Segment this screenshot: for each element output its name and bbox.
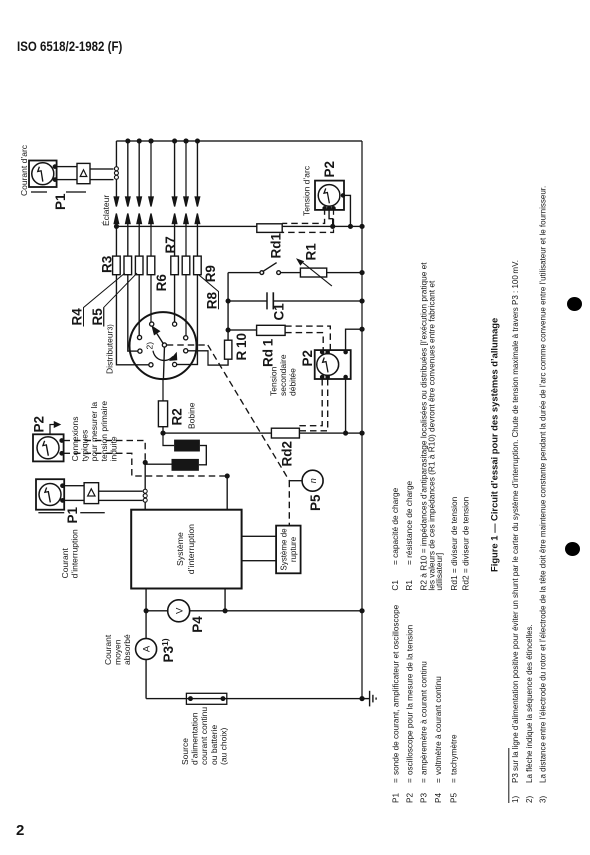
label tension secondaire	[269, 354, 298, 396]
svg-text:C1: C1	[390, 580, 400, 591]
svg-text:=: =	[450, 778, 459, 783]
voltmeter P4	[168, 600, 190, 622]
current clamp P1a on gap wire 1	[114, 167, 118, 180]
spark gap 6	[184, 139, 188, 226]
amplifier P1a	[77, 163, 90, 183]
svg-text:Figure 1 — Circuit d’essai pou: Figure 1 — Circuit d’essai pour des syst…	[489, 318, 500, 572]
oscilloscope P1b box	[36, 479, 64, 510]
svg-text:pour mesurer la: pour mesurer la	[89, 402, 99, 462]
current clamp P1b on primary wire	[143, 489, 147, 502]
rupture system box	[276, 526, 301, 574]
dashed P2s leads to Rd2	[299, 379, 327, 431]
svg-text:Système: Système	[175, 532, 185, 566]
svg-text:Rd1 = diviseur de tension: Rd1 = diviseur de tension	[449, 496, 459, 590]
wire P2s to ground rail	[346, 327, 364, 352]
svg-text:R3: R3	[100, 255, 115, 273]
interruption system box U1	[131, 510, 241, 589]
svg-text:R5: R5	[90, 308, 105, 326]
dashed P2p lead 1	[64, 441, 146, 461]
resistor R5	[135, 226, 143, 274]
rheostat R1	[298, 260, 364, 287]
svg-text:induite: induite	[108, 436, 118, 461]
resistor R9	[194, 226, 202, 274]
registration dot bottom	[565, 542, 580, 556]
svg-text:R6: R6	[154, 274, 169, 292]
svg-text:R8: R8	[205, 291, 220, 309]
legend P block	[392, 604, 459, 803]
svg-text:P2: P2	[406, 793, 415, 803]
coil R2 (Bobine)	[158, 401, 167, 435]
leader R8	[199, 275, 219, 310]
svg-text:Tension: Tension	[269, 366, 279, 396]
wire rupture link a	[242, 560, 277, 562]
resistor R10	[225, 273, 232, 360]
svg-text:(au choix): (au choix)	[218, 728, 228, 765]
svg-text:R1: R1	[304, 243, 319, 261]
svg-text:R2: R2	[170, 408, 185, 425]
oscilloscope P1a box (arc current)	[29, 161, 57, 188]
svg-text:= résistance de charge: = résistance de charge	[404, 480, 414, 565]
svg-text:V: V	[174, 607, 185, 614]
svg-text:utilisateur]: utilisateur]	[434, 553, 444, 591]
svg-text:2): 2)	[525, 796, 534, 803]
svg-text:tachymètre: tachymètre	[450, 734, 459, 775]
svg-text:Source: Source	[180, 738, 190, 765]
legend C block	[390, 262, 471, 591]
svg-text:=: =	[434, 778, 443, 783]
contact c2	[150, 322, 154, 326]
wire resistor5 to contact c3	[174, 275, 176, 324]
svg-text:Connexions: Connexions	[70, 417, 80, 462]
wire contact c6 to R10 rail	[188, 351, 228, 365]
wire distributor center to coil R2	[163, 347, 164, 401]
svg-text:voltmètre à courant continu: voltmètre à courant continu	[434, 676, 443, 775]
dashed drive from distributor to tachymeter	[167, 345, 289, 526]
probe arrow P2p	[50, 422, 60, 434]
svg-text:Rd 1: Rd 1	[261, 338, 276, 367]
winding bar 2	[172, 459, 199, 471]
svg-text:P2: P2	[322, 161, 337, 178]
capacitor C1 branch	[226, 292, 364, 309]
svg-text:R4: R4	[70, 308, 85, 326]
spark gap 3	[137, 139, 141, 226]
oscilloscope P2p box (primary voltage)	[33, 434, 64, 461]
wire resistor4 to contact c2	[150, 275, 152, 324]
svg-text:P2: P2	[32, 416, 47, 433]
svg-text:P4: P4	[190, 616, 205, 633]
wire left supply vertical	[146, 698, 362, 700]
contact c3	[173, 322, 177, 326]
svg-text:rupture: rupture	[289, 536, 298, 562]
label systeme de rupture	[280, 528, 299, 571]
svg-text:= capacité de charge: = capacité de charge	[390, 487, 400, 565]
rotor arrow	[152, 327, 163, 344]
ammeter P3	[136, 639, 157, 660]
underline R5	[103, 308, 104, 327]
underline R4	[83, 308, 84, 327]
svg-text:Courant d’arc: Courant d’arc	[19, 144, 29, 196]
svg-text:d’interruption: d’interruption	[70, 529, 80, 578]
svg-text:tension primaire: tension primaire	[99, 401, 109, 462]
source box (battery / DC supply)	[186, 693, 226, 704]
svg-text:A: A	[142, 645, 153, 652]
svg-text:P3: P3	[420, 793, 429, 803]
leader R5	[104, 273, 137, 326]
rotor center contact	[162, 343, 166, 347]
resistor R3	[113, 226, 121, 274]
svg-text:Rd2: Rd2	[280, 441, 295, 467]
svg-text:ou batterie: ou batterie	[209, 725, 219, 765]
svg-text:=: =	[392, 778, 401, 783]
svg-text:absorbé: absorbé	[122, 634, 132, 665]
contact c4	[184, 336, 188, 340]
wire coil node down to Rd2 and ground rail	[163, 431, 364, 435]
label connexions typiques	[70, 401, 118, 462]
svg-text:P3 sur la ligne d’alimentation: P3 sur la ligne d’alimentation positive …	[511, 260, 520, 783]
contact c5	[138, 349, 142, 353]
wire measure tap to box	[225, 474, 229, 510]
resistor R4	[124, 226, 132, 274]
oscilloscope P2a box (arc voltage)	[315, 181, 345, 210]
svg-text:Rd2 = diviseur de tension: Rd2 = diviseur de tension	[460, 496, 470, 590]
divider Rd1a (arc voltage, on eclateur rail)	[257, 224, 364, 233]
svg-text:sonde de courant, amplificateu: sonde de courant, amplificateur et oscil…	[392, 604, 401, 775]
svg-text:R7: R7	[163, 236, 178, 253]
contact c1	[137, 335, 141, 339]
wire resistor1 to contact c7	[116, 275, 150, 365]
contact c8	[173, 362, 177, 366]
wire rupture link b	[242, 535, 277, 537]
wire box lower feed	[223, 589, 227, 613]
wire eclateur rail	[115, 225, 363, 229]
voltmeter P4 branch	[144, 609, 364, 613]
wire Rd1s feed	[226, 328, 256, 332]
svg-text:1): 1)	[511, 796, 520, 803]
wire bottom ground rail	[361, 141, 363, 699]
spark gap 5	[172, 139, 176, 226]
svg-text:ampèremètre à courant continu: ampèremètre à courant continu	[420, 661, 429, 775]
bracket P1b	[38, 512, 104, 514]
wire coil node to winding 1	[163, 433, 174, 445]
svg-text:3): 3)	[539, 796, 548, 803]
label courant moyen absorbe	[103, 634, 132, 665]
svg-text:Courant: Courant	[60, 548, 70, 579]
wires P1b meter-amp-clamp	[64, 486, 142, 501]
label source d'alimentation	[180, 707, 228, 765]
divider Rd1s (secondary)	[257, 325, 286, 335]
sequence arrow 2)	[153, 351, 177, 361]
svg-text:P5: P5	[450, 793, 459, 803]
leader R4	[84, 273, 125, 326]
svg-text:=: =	[406, 778, 415, 783]
svg-text:P1: P1	[392, 793, 401, 803]
svg-text:La distance entre l’électrode: La distance entre l’électrode du rotor e…	[539, 186, 548, 783]
footnotes	[511, 186, 548, 803]
contact c7	[149, 363, 153, 367]
svg-text:moyen: moyen	[113, 639, 123, 665]
svg-text:P2: P2	[300, 350, 315, 367]
svg-text:Courant: Courant	[103, 634, 113, 665]
wire resistor2 to contact c5	[128, 275, 140, 351]
svg-text:La flèche indique la séquence: La flèche indique la séquence des étince…	[525, 624, 534, 783]
wire winding2 top to primary node	[145, 463, 171, 465]
svg-text:Bobine: Bobine	[187, 402, 197, 429]
winding bar 1	[174, 440, 200, 452]
ground	[360, 691, 376, 707]
spark gap 7	[195, 139, 199, 226]
wire supply to P3	[145, 589, 147, 699]
switch	[228, 263, 300, 275]
svg-text:Système de: Système de	[280, 528, 289, 571]
divider Rd2	[271, 428, 299, 438]
dashed P2a leads to Rd1a	[282, 208, 333, 232]
svg-text:oscilloscope pour la mesure de: oscilloscope pour la mesure de la tensio…	[406, 624, 415, 775]
svg-text:les valeurs de ces impédances: les valeurs de ces impédances (R1 à R10)…	[427, 280, 437, 591]
registration dot top	[567, 297, 582, 311]
svg-text:typiques: typiques	[80, 430, 90, 462]
svg-text:P31): P31)	[160, 638, 176, 662]
svg-text:P1: P1	[53, 193, 68, 210]
contact c6	[184, 349, 188, 353]
dashed P2s leads to Rd1s	[285, 326, 330, 350]
svg-text:Distributeur3): Distributeur3)	[105, 324, 115, 374]
svg-text:R 10: R 10	[234, 333, 249, 360]
wire primary node to interruption box	[143, 461, 147, 510]
wire P2a to rails	[329, 195, 352, 228]
underline R8	[218, 292, 219, 310]
wire resistor3 to contact c1	[138, 275, 140, 338]
svg-text:d’interruption: d’interruption	[186, 524, 196, 574]
svg-text:P1: P1	[65, 506, 80, 523]
svg-text:P5: P5	[308, 494, 323, 511]
svg-text:=: =	[420, 778, 429, 783]
svg-text:Éclateur: Éclateur	[101, 195, 111, 226]
footnote rule	[508, 748, 509, 803]
svg-text:C1: C1	[272, 303, 287, 321]
wire winding bottoms U link	[199, 446, 206, 465]
dashed P2p lead 2	[64, 453, 228, 476]
svg-text:courant continu: courant continu	[199, 707, 209, 765]
spark gap 1	[114, 141, 118, 226]
oscilloscope P2s box (secondary voltage)	[315, 350, 351, 379]
resistor R7	[171, 226, 179, 274]
svg-text:Rd1: Rd1	[269, 233, 284, 259]
svg-text:d’alimentation: d’alimentation	[190, 712, 200, 765]
amplifier P1b	[84, 483, 99, 504]
svg-text:débitée: débitée	[288, 368, 298, 396]
wire to P5	[289, 480, 302, 482]
svg-text:2): 2)	[145, 342, 155, 350]
spark gap 4	[149, 139, 153, 226]
wire resistor6 to contact c4	[185, 275, 187, 338]
label systeme d'interruption	[175, 524, 196, 574]
wire P2s to Rd2 node	[345, 377, 347, 433]
wire top bus vertical rail	[116, 140, 362, 142]
wire resistor7 to contact c8	[175, 275, 198, 365]
label courant d'interruption	[60, 529, 80, 578]
svg-text:n: n	[308, 478, 318, 483]
resistor R8r	[182, 226, 190, 274]
bracket P1a	[31, 191, 86, 193]
tachymeter P5	[302, 470, 323, 491]
distributor circle	[130, 312, 197, 379]
svg-text:Tension d’arc: Tension d’arc	[302, 165, 312, 216]
svg-text:secondaire: secondaire	[278, 354, 288, 396]
spark gap 2	[126, 139, 130, 226]
resistor R6	[147, 226, 155, 274]
wires P1a meter-amp-clamp	[57, 167, 114, 180]
svg-text:R9: R9	[203, 265, 218, 282]
svg-text:P4: P4	[434, 793, 443, 803]
svg-text:R1: R1	[404, 580, 414, 591]
